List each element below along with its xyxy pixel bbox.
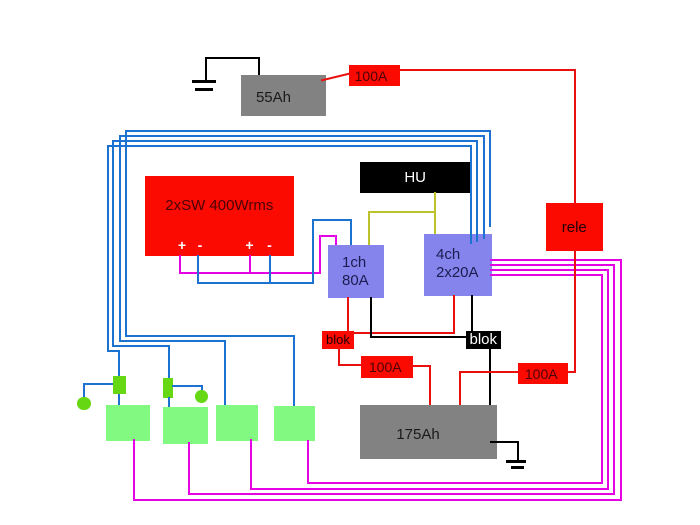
wire speaker sp4 return to 4ch (magenta) xyxy=(307,440,309,485)
wire ground to 55Ah battery (black) xyxy=(205,57,260,59)
wire 175Ah to ground (black) xyxy=(490,441,519,443)
crossover xr1 xyxy=(113,376,126,395)
label blok black xyxy=(466,331,501,348)
wire 55Ah to fuse F1 (red diagonal) xyxy=(317,69,353,85)
subwoofer 2xSW 400Wrms xyxy=(145,176,294,256)
wire speaker sp3 return to 4ch (magenta) xyxy=(250,439,252,490)
wire HU remote branch to 1ch amp (yellow) xyxy=(368,211,436,213)
label blok red xyxy=(322,332,355,347)
terminal - (sub1 minus) xyxy=(192,237,208,253)
speaker sp4 xyxy=(274,406,315,442)
label F2 100A xyxy=(360,359,412,375)
wire speaker out 2 (blue) 4ch to speaker sp3 xyxy=(483,135,485,239)
wire speaker out 3 (blue) 4ch to crossover xr2 xyxy=(476,140,478,242)
crossover xr2 xyxy=(163,378,173,398)
terminal + (sub2 plus) xyxy=(242,237,258,253)
amplifier U2 4ch 2x20A xyxy=(424,234,492,296)
tweeter c1 xyxy=(77,397,91,411)
battery 175Ah xyxy=(360,405,497,459)
wire 4ch ground to ground block (black) xyxy=(471,295,473,333)
ground symbol (chassis ground near 55Ah battery) xyxy=(205,57,207,82)
wire crossover xr2 to tweeter c2 (blue) xyxy=(172,385,203,387)
wire HU remote to 4ch amp (yellow) xyxy=(434,192,436,235)
ground block blok (black) xyxy=(466,331,501,349)
label F3 100A xyxy=(516,366,567,382)
wire fuse F2 to 175Ah battery (red) xyxy=(412,365,431,367)
speaker sp3 xyxy=(216,405,258,441)
wire sub minus terminals to 1ch amp (blue) xyxy=(197,255,199,285)
label 2xSW 400Wrms xyxy=(145,197,294,214)
head unit HU xyxy=(360,162,470,193)
wire fuse F3 to 175Ah battery (red) xyxy=(459,371,519,373)
speaker sp1 xyxy=(106,405,150,441)
wire crossover xr2 to speaker sp2 (blue) xyxy=(168,397,170,409)
wire crossover xr1 to speaker sp1 (blue) xyxy=(118,394,120,408)
wire relay to fuse F3 (red) xyxy=(574,250,576,374)
relay K1 rele xyxy=(546,203,604,251)
wire speaker out 4 (blue) 4ch to crossover xr1 xyxy=(470,145,472,244)
fuse F1 100A (main fuse at front battery) xyxy=(349,65,400,86)
wire 4ch power to distribution block (red) xyxy=(453,295,455,335)
tweeter c2 xyxy=(195,390,208,403)
ground symbol (rear battery ground) xyxy=(506,460,526,463)
label 4ch 2x20A xyxy=(436,246,491,282)
wire speaker out 1 (blue) 4ch to speaker sp4 xyxy=(489,130,491,227)
wire 1ch ground to ground block (black) xyxy=(370,297,372,338)
speaker sp2 xyxy=(163,407,208,444)
wire speaker sp1 return to 4ch (magenta) xyxy=(133,439,135,501)
label F1 100A xyxy=(346,68,397,84)
wire tweeter c1 to crossover xr1 (blue) xyxy=(83,383,85,400)
terminal - (sub2 minus) xyxy=(262,237,278,253)
wire ground block to 175Ah battery (black) xyxy=(489,348,491,408)
wire sub plus terminals to 1ch amp (magenta) xyxy=(179,255,181,274)
label 55Ah xyxy=(241,89,306,106)
fuse F3 100A xyxy=(518,363,569,384)
wire distribution block to fuse F2 (red) xyxy=(338,348,340,367)
label 175Ah xyxy=(360,426,476,443)
wire F1 to relay (red) xyxy=(399,69,577,71)
fuse F2 100A xyxy=(361,356,413,378)
distribution block blok (red) xyxy=(322,331,355,349)
label 1ch 80A xyxy=(342,254,387,290)
terminal + (sub1 plus) xyxy=(174,237,190,253)
amplifier U1 1ch 80A xyxy=(328,245,384,298)
label HU xyxy=(360,169,470,186)
wire 1ch power to distribution block (red) xyxy=(347,297,349,332)
wire speaker sp2 return to 4ch (magenta) xyxy=(188,442,190,495)
battery 55Ah xyxy=(241,75,326,116)
label rele xyxy=(546,219,604,236)
